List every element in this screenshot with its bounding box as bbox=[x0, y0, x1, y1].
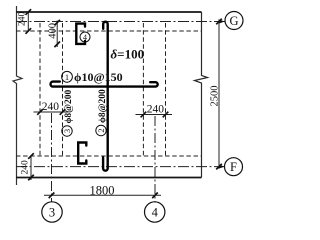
node axis 4 centerline bbox=[154, 116, 156, 202]
svg-text:400: 400 bbox=[47, 23, 58, 39]
grid bubble F bbox=[225, 158, 243, 176]
dimension 2500 (right) bbox=[210, 19, 222, 170]
svg-text:ϕ8@200: ϕ8@200 bbox=[98, 89, 108, 123]
wire left break line bbox=[13, 6, 22, 185]
svg-text:δ=100: δ=100 bbox=[111, 47, 145, 62]
svg-text:ϕ10@150: ϕ10@150 bbox=[74, 70, 123, 84]
rebar 4 (top distribution bar, bracket shape) bbox=[76, 24, 85, 44]
wire grid-4 wall left face (dashed) bbox=[142, 23, 144, 156]
svg-text:2500: 2500 bbox=[210, 86, 221, 107]
svg-text:G: G bbox=[229, 14, 238, 28]
wire top wall outer edge bbox=[16, 11, 202, 13]
wire grid-4 wall right face (dashed) bbox=[165, 23, 167, 156]
svg-text:3: 3 bbox=[49, 206, 55, 220]
wire bottom wall outer edge bbox=[16, 177, 202, 179]
dimension 240 (grid-3 wall) bbox=[34, 101, 69, 115]
rebar 2 (middle top bar, hooks both ends) bbox=[103, 22, 108, 171]
dimension 240 (grid-4 wall) bbox=[136, 104, 173, 118]
wire grid-3 wall left face (dashed) bbox=[39, 23, 41, 156]
dimension 240 (top-left wall thickness) bbox=[18, 9, 32, 34]
svg-text:ϕ8@200: ϕ8@200 bbox=[64, 89, 74, 123]
grid bubble 3 bbox=[42, 202, 62, 222]
svg-text:240: 240 bbox=[18, 12, 28, 27]
svg-text:1800: 1800 bbox=[90, 184, 115, 198]
svg-text:3: 3 bbox=[62, 129, 72, 133]
node axis G centerline bbox=[16, 21, 219, 23]
grid bubble 4 bbox=[145, 202, 165, 222]
svg-text:4: 4 bbox=[83, 33, 87, 42]
label circled 4 bbox=[80, 32, 90, 42]
wire right wall edge with break bbox=[195, 12, 208, 178]
wire bottom wall inner edge (hidden, dashed) bbox=[16, 155, 202, 157]
dimension 400 (top bar extension) bbox=[47, 20, 60, 47]
wire grid-3 wall right face (dashed) bbox=[62, 23, 64, 156]
rebar 3 (bottom-left top bar, bracket shape) bbox=[78, 143, 86, 164]
label bar 2: circled 2 + phi 8 at 200 (rotated) bbox=[96, 89, 108, 136]
rebar 1 (bottom bar with 180-degree end hooks) bbox=[51, 82, 158, 87]
svg-text:F: F bbox=[230, 160, 237, 174]
label bar 1: circled 1 + phi 10 at 150 bbox=[62, 70, 123, 84]
wire top wall inner edge (hidden, dashed) bbox=[16, 30, 202, 32]
label bar 3: circled 3 + phi 8 at 200 (rotated) bbox=[62, 89, 74, 136]
svg-text:240: 240 bbox=[147, 104, 165, 116]
svg-text:240: 240 bbox=[21, 160, 31, 175]
svg-text:4: 4 bbox=[152, 206, 159, 220]
node axis 3 centerline bbox=[51, 113, 53, 202]
svg-text:240: 240 bbox=[42, 101, 60, 113]
grid bubble G bbox=[225, 12, 243, 30]
svg-text:2: 2 bbox=[96, 128, 106, 132]
svg-text:1: 1 bbox=[65, 72, 69, 82]
node axis F centerline bbox=[16, 166, 219, 168]
dimension 1800 (bottom) bbox=[44, 184, 161, 199]
dimension 240 (bottom-left wall thickness) bbox=[21, 153, 34, 180]
